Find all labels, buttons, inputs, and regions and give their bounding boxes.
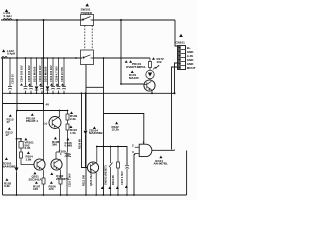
junction dots on H2: [16, 57, 18, 59]
node B junction x43.5: [43, 19, 45, 21]
capacitor branch x64: [62, 58, 66, 93]
L102 label: [2, 49, 5, 52]
svg-text:12.2k: 12.2k: [112, 128, 120, 132]
wire pin5 stub: [175, 63, 178, 93]
PD101 label: [125, 60, 128, 63]
svg-text:102: 102: [157, 60, 162, 64]
wire top-right bend to connector: [175, 20, 178, 46]
wire H7 to gate: [104, 114, 144, 145]
svg-text:AN-967BL: AN-967BL: [154, 162, 169, 166]
svg-text:D103 MA165: D103 MA165: [44, 66, 48, 82]
connector CN101: [179, 34, 183, 37]
transistor Q102: [51, 159, 62, 170]
svg-text:OVERT.IMPUL: OVERT.IMPUL: [126, 65, 146, 69]
svg-text:R112 180: R112 180: [82, 174, 86, 186]
svg-text:MA165: MA165: [129, 76, 139, 80]
capacitor branch x10: [8, 58, 12, 93]
bus H4 ground rail: [3, 92, 175, 94]
IC101 label: [159, 156, 162, 159]
gate IC101: [139, 144, 152, 156]
inductor L101: [3, 19, 12, 21]
R107 label: [35, 181, 38, 184]
svg-text:C106 10 50V: C106 10 50V: [60, 67, 64, 82]
gate output wire: [152, 149, 175, 152]
SW101 linkage dashed: [85, 26, 92, 51]
svg-text:390: 390: [52, 143, 57, 147]
resistor R107 emitter Q102: [59, 178, 62, 184]
inductor L102: [2, 57, 8, 59]
svg-text:0.05: 0.05: [25, 146, 31, 150]
H4 junction dots: [9, 93, 11, 95]
wire pin6 stub: [172, 67, 178, 150]
svg-text:D102 MA165: D102 MA165: [33, 66, 37, 82]
svg-text:MA4056B: MA4056B: [2, 164, 16, 168]
wire H1 top rail: [1, 19, 175, 21]
R102 label: [5, 178, 8, 181]
svg-text:Q103 2SA733: Q103 2SA733: [89, 169, 93, 186]
svg-text:CN101: CN101: [176, 41, 186, 45]
trimmer VR101: [19, 142, 23, 149]
wire R112 chain: [82, 93, 88, 167]
capacitor C106: [65, 152, 70, 195]
border right: [186, 151, 188, 196]
wire x86 switched feed: [86, 65, 104, 196]
transistor Q103: [87, 162, 98, 173]
svg-text:PM-NT-1: PM-NT-1: [26, 119, 38, 123]
node A junction x17: [16, 19, 18, 21]
svg-text:C110 1 50V: C110 1 50V: [67, 173, 71, 187]
capacitor branch x25.5 C104: [24, 58, 28, 93]
resistor R110: [66, 124, 69, 130]
wire vertical x43.5: [43, 20, 45, 106]
svg-text:MOUT: MOUT: [187, 66, 196, 70]
wire H6: [17, 110, 68, 112]
transistor Q104: [49, 117, 61, 129]
svg-text:120: 120: [49, 187, 54, 191]
capacitor branch x53: [51, 58, 55, 93]
D101 label: [131, 70, 134, 73]
svg-text:C105 100 16V: C105 100 16V: [27, 65, 31, 82]
bottom bus: [3, 194, 187, 196]
PD102 label: [31, 113, 34, 116]
svg-text:47: 47: [7, 120, 11, 124]
transistor Q101: [34, 159, 45, 170]
diode branch x47.5: [46, 58, 50, 93]
capacitor C109: [66, 154, 71, 157]
svg-text:C102 100 16V: C102 100 16V: [49, 65, 53, 82]
svg-text:(+): (+): [44, 122, 48, 126]
svg-text:2.2k: 2.2k: [70, 117, 76, 121]
svg-text:C103 10: C103 10: [11, 74, 15, 84]
wire trimmer tap: [17, 139, 22, 142]
L101 label: [5, 9, 8, 12]
R113 label: [8, 127, 11, 130]
C106 label: [66, 138, 69, 141]
svg-text:C104 100 16V: C104 100 16V: [20, 65, 24, 82]
R106 label: [50, 181, 53, 184]
svg-text:C101 100 16V: C101 100 16V: [38, 65, 42, 82]
wire vertical x121: [120, 20, 122, 84]
LED PD101: [146, 70, 154, 78]
resistor R109: [67, 111, 69, 153]
R115 label: [9, 114, 12, 117]
wire vertical x17: [16, 20, 18, 111]
wire x103.5 long vertical: [103, 58, 105, 195]
capacitor C107: [125, 166, 129, 195]
transistor PS101: [144, 80, 155, 91]
capacitor branch x31 C105: [29, 58, 33, 93]
svg-text:C107 1 50V: C107 1 50V: [120, 171, 124, 185]
svg-text:R106 68: R106 68: [77, 139, 81, 149]
wire x16.5 lower: [16, 111, 18, 196]
svg-text:47: 47: [6, 133, 10, 137]
switch SW101 pole1: [85, 3, 89, 6]
resistor R172: [149, 58, 151, 70]
svg-text:0.4µH: 0.4µH: [4, 14, 12, 18]
node C junction x121: [120, 19, 122, 21]
svg-text:120: 120: [33, 187, 38, 191]
zener ZD104: [85, 93, 87, 167]
svg-text:4V: 4V: [46, 103, 50, 107]
wire H3 base feed: [121, 83, 144, 85]
svg-text:3.3k: 3.3k: [4, 184, 10, 188]
Q101 label: [33, 172, 36, 175]
svg-text:C108 4.7 50V: C108 4.7 50V: [55, 66, 59, 82]
wire H8: [97, 147, 127, 166]
svg-text:2SC941A: 2SC941A: [29, 177, 43, 181]
resistor R111: [117, 147, 119, 196]
wire H5: [3, 104, 44, 111]
wire vertical x2.5 left drop: [2, 58, 4, 195]
svg-text:MA4056B: MA4056B: [89, 131, 103, 135]
switch SW101 pole2: [81, 50, 94, 65]
diode branch x36.5: [35, 58, 39, 93]
svg-text:SW102 (RESET): SW102 (RESET): [104, 165, 108, 185]
zener ZD101: [15, 168, 19, 172]
svg-text:0.068: 0.068: [65, 144, 73, 148]
switch SW102: [109, 147, 113, 196]
resistor R103 emitter Q101: [42, 178, 45, 184]
wire H2 second rail: [1, 57, 150, 59]
R108 label: [54, 137, 57, 140]
Q102 label: [50, 172, 53, 175]
R122 label: [115, 122, 118, 125]
capacitor branch x42: [40, 58, 44, 93]
svg-text:1.5k: 1.5k: [70, 131, 76, 135]
capacitor branch x58.5: [57, 58, 61, 93]
svg-text:1.8k: 1.8k: [26, 157, 32, 161]
resistor R104: [20, 152, 23, 158]
svg-text:R111 68: R111 68: [111, 175, 115, 185]
wire gate input2 drop: [133, 153, 136, 195]
svg-text:0.4µH: 0.4µH: [7, 52, 15, 56]
